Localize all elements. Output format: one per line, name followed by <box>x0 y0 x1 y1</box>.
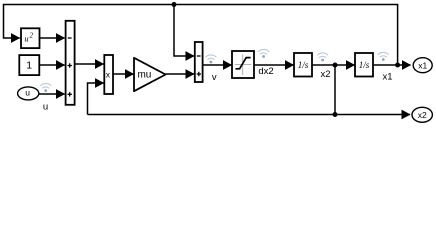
svg-text:x1: x1 <box>382 71 392 82</box>
svg-text:v: v <box>212 72 217 83</box>
svg-text:1/s: 1/s <box>298 60 309 70</box>
svg-text:2: 2 <box>30 32 34 40</box>
block gain mu triangle <box>134 58 166 91</box>
label x2 under wire <box>320 69 330 80</box>
svg-text:1/s: 1/s <box>359 60 370 70</box>
wire feedback top line from node x1 to left <box>4 5 398 66</box>
block constant 1 <box>19 55 39 75</box>
wire gain mu to sum2 plus <box>166 73 194 75</box>
wire sum2 to saturation, node v <box>203 64 232 66</box>
svg-text:x2: x2 <box>418 110 427 120</box>
block u^2 square function <box>21 28 40 48</box>
wire x2 feedback to product second input <box>88 83 104 115</box>
wifi badge on x1 wire <box>378 52 388 60</box>
block sum1 <box>66 21 75 105</box>
wire integrator1 to integrator2, node x2 <box>312 63 355 68</box>
wire u^2 to sum1 minus <box>40 37 65 39</box>
wire sum1 to product <box>75 63 104 65</box>
svg-text:x1: x1 <box>418 60 427 70</box>
wire x2 branch down to bottom line <box>333 65 338 117</box>
svg-text:u: u <box>24 34 28 44</box>
label x1 under wire <box>382 71 392 82</box>
block integrator 1/s second <box>355 53 373 77</box>
wire bottom line left to product feedback <box>88 114 336 116</box>
svg-text:dx2: dx2 <box>258 66 273 77</box>
outport x2 oval <box>412 107 432 122</box>
svg-text:x2: x2 <box>320 69 330 80</box>
wire saturation to integrator1, node dx2 <box>254 64 294 66</box>
wifi badge on u wire <box>41 84 51 92</box>
svg-text:1: 1 <box>26 59 32 71</box>
wire product to gain mu <box>113 73 134 75</box>
block product x <box>104 55 113 94</box>
label dx2 under wire <box>258 66 273 77</box>
block sum2 <box>195 42 203 82</box>
block saturation <box>232 51 254 78</box>
wire integrator2 to outport x1, node x1 junction <box>373 63 411 68</box>
svg-text:u: u <box>25 88 30 98</box>
wifi badge on v wire <box>206 55 216 63</box>
outport x1 oval <box>413 58 432 73</box>
label v under wire <box>212 72 217 83</box>
block integrator 1/s first <box>294 53 312 77</box>
svg-text:x: x <box>106 70 111 80</box>
wire u to sum1 plus <box>39 93 65 95</box>
wire constant to sum1 plus <box>40 64 65 66</box>
wire bottom line right to outport x2 <box>335 114 410 116</box>
inport u oval <box>18 87 39 100</box>
wifi badge on x2 wire <box>317 53 327 61</box>
wifi badge on dx2 wire <box>258 49 268 57</box>
node junction on top line feeding sum2 <box>172 2 195 56</box>
label u under wire <box>43 101 48 112</box>
svg-text:u: u <box>43 101 48 112</box>
svg-text:mu: mu <box>137 70 151 81</box>
